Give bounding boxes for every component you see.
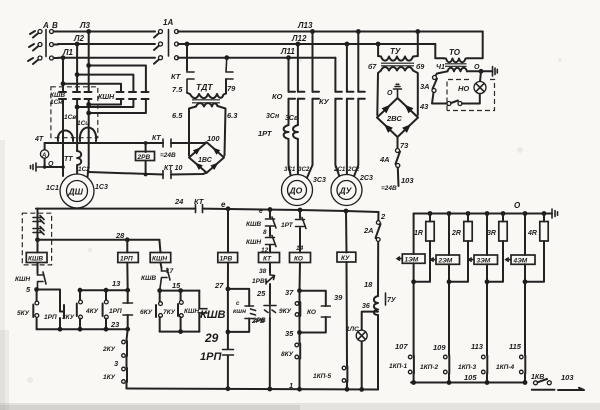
rectifier 2ВС bridge outline: [377, 98, 418, 137]
node loop B top: [75, 72, 80, 77]
node 27: [226, 287, 231, 292]
svg-text:1ЭМ: 1ЭМ: [405, 257, 419, 264]
contact 2РВ timed: [264, 306, 276, 319]
node 28: [125, 237, 130, 242]
svg-text:1Св: 1Св: [64, 114, 76, 121]
contact 1РП nc: [127, 290, 129, 329]
svg-text:2: 2: [380, 212, 386, 221]
wire КШН rung: [159, 240, 161, 268]
contact 1РВ timed: [266, 273, 275, 284]
coil КШН box: [150, 253, 171, 263]
wire Л13 corner to ТО: [468, 32, 483, 59]
fuse 4А: [396, 149, 401, 168]
wire 15 block top: [160, 290, 200, 292]
button 4КУ: [105, 290, 107, 300]
node 7КУ top: [178, 288, 183, 293]
svg-text:1РП: 1РП: [120, 256, 133, 263]
ground right bus: [552, 209, 558, 218]
wire ТДТ secondary right drop: [218, 106, 226, 156]
wire 1РВ rung: [227, 209, 229, 289]
motor ДУ outer circle: [331, 175, 362, 206]
svg-text:7КУ: 7КУ: [163, 309, 176, 316]
node loop B return: [75, 105, 80, 110]
svg-text:ДО: ДО: [289, 186, 303, 196]
diode 2ВС top-right: [405, 105, 414, 114]
motor ДО inner circle: [288, 181, 307, 200]
svg-text:ДШ: ДШ: [68, 187, 84, 197]
svg-text:103: 103: [401, 176, 414, 185]
rung2 right wire + resistor 2R: [449, 214, 468, 282]
contact КО aux ticks: [321, 306, 330, 317]
wire КТ rung: [269, 210, 271, 390]
wire top line 13: [80, 289, 128, 291]
underline 1КВ: [532, 389, 555, 391]
node Л12-ДО tap: [296, 42, 301, 47]
svg-text:39: 39: [334, 293, 343, 302]
svg-text:103: 103: [561, 373, 574, 382]
contact КШН aux block: [198, 291, 200, 332]
transformer ТДТ primary winding: [187, 93, 226, 98]
wire 1РП rung: [126, 240, 128, 290]
svg-text:е: е: [221, 200, 226, 209]
wire О to ground: [481, 70, 493, 72]
node Л12-ТДТ tap: [185, 42, 190, 47]
node Л3 tap: [86, 29, 91, 34]
wire ДО phase 1: [289, 58, 292, 177]
bottom bus middle: [127, 389, 379, 390]
coil КО box: [290, 253, 311, 263]
contact КО pole3: [313, 92, 320, 99]
svg-text:4КУ: 4КУ: [85, 308, 99, 315]
motor ДО outer circle: [282, 175, 313, 206]
rung3 right wire + resistor 3R: [487, 214, 503, 282]
wire line2 Л12 right: [178, 43, 435, 45]
svg-text:О: О: [48, 161, 54, 168]
lamp НО: [474, 82, 486, 94]
svg-text:4R: 4R: [527, 230, 537, 237]
wire ДО phase 3: [306, 32, 313, 181]
winding 7У: [374, 296, 378, 315]
node Л12-ТУ tap: [376, 42, 381, 47]
svg-text:1РП: 1РП: [109, 308, 122, 315]
node Л12-ДУ tap: [345, 42, 350, 47]
contact cross 1: [33, 216, 44, 224]
node bottom x362: [359, 387, 364, 392]
wire 29 down: [227, 289, 229, 389]
control bus left: [36, 208, 196, 210]
contact КШВ pole3: [85, 92, 92, 99]
svg-text:2ЭМ: 2ЭМ: [438, 258, 453, 265]
bottom bus nodes: [411, 380, 416, 385]
svg-text:А: А: [41, 153, 46, 159]
svg-text:1РВ: 1РВ: [220, 256, 233, 263]
contact КУ pole2: [347, 92, 354, 99]
svg-text:3С3: 3С3: [313, 177, 326, 184]
control bus right: [203, 209, 379, 212]
transformer ТУ core: [381, 63, 414, 66]
wire ТУ secondary right to bridge: [413, 71, 418, 116]
svg-text:27: 27: [214, 281, 224, 290]
svg-text:КО: КО: [294, 256, 303, 263]
svg-text:3Св: 3Св: [285, 115, 299, 122]
contact КШН nc x: [266, 236, 277, 247]
motor ДШ outer circle: [60, 174, 94, 208]
contact 1КП-1: [408, 355, 412, 359]
svg-text:2С3: 2С3: [359, 175, 373, 182]
svg-text:2С1: 2С1: [333, 166, 346, 173]
svg-text:4ЭМ: 4ЭМ: [513, 258, 528, 265]
svg-text:Л13: Л13: [297, 21, 313, 30]
svg-text:38: 38: [259, 268, 267, 275]
node 4КУ top: [104, 288, 109, 293]
svg-text:113: 113: [471, 342, 484, 351]
wire loop arc right: [80, 128, 96, 142]
svg-text:1С3: 1С3: [95, 184, 108, 191]
wire ТУ primary left drop: [377, 44, 379, 56]
svg-text:КТ: КТ: [263, 256, 272, 263]
svg-text:О: О: [514, 201, 521, 210]
svg-text:1КУ: 1КУ: [103, 374, 116, 381]
node loop C return: [86, 102, 91, 107]
node ammeter: [43, 165, 47, 169]
wire ТУ primary right drop: [417, 32, 419, 57]
svg-text:КШН: КШН: [15, 276, 30, 283]
svg-text:КУ: КУ: [341, 255, 350, 262]
rung1 left wire: [413, 214, 415, 383]
rung1 right wire + resistor 1R: [414, 214, 430, 282]
svg-text:109: 109: [433, 343, 446, 352]
svg-text:КШВ: КШВ: [50, 92, 65, 99]
ground 2ВС top: [394, 84, 402, 98]
wire line1 Л3 left: [58, 31, 155, 33]
svg-text:1РВ: 1РВ: [252, 278, 265, 285]
wire phase drop x89 to motor ДШ: [88, 32, 89, 178]
wire lamp branch: [362, 312, 378, 390]
svg-text:107: 107: [395, 342, 408, 351]
right bottom bus: [411, 382, 525, 384]
ground left: [31, 163, 45, 171]
wire loop C КШН: [63, 84, 121, 105]
svg-text:2А: 2А: [363, 226, 374, 235]
wire field line upper: [45, 142, 207, 145]
node rung2 join: [447, 279, 452, 284]
contact КШВ pole2: [73, 92, 80, 99]
wire 27-29 rect loop: [228, 289, 249, 332]
node Л1 tap: [61, 55, 66, 60]
switch 1А pole 2: [154, 42, 179, 50]
svg-text:Л3: Л3: [79, 21, 90, 30]
svg-text:Л12: Л12: [291, 34, 307, 43]
transformer ТУ secondary winding: [381, 67, 413, 70]
svg-text:1КВ: 1КВ: [531, 374, 544, 381]
switch АВ pole 3: [33, 56, 58, 64]
svg-text:3R: 3R: [487, 230, 496, 237]
transformer ТДТ secondary winding: [196, 103, 218, 106]
coil 2ЭМ box: [436, 255, 460, 264]
contact 1РТ nc: [296, 218, 307, 229]
svg-text:4Т: 4Т: [34, 136, 44, 143]
wire field line lower: [89, 172, 207, 175]
wire ДУ phase 3: [353, 32, 358, 180]
fuse 2А: [376, 221, 381, 242]
rung2 left wire: [448, 214, 450, 383]
switch 1А pole 1: [154, 30, 179, 38]
wire bottom line 23: [37, 328, 128, 330]
wire ТДТ primary left drop: [186, 44, 188, 70]
svg-text:1R: 1R: [414, 230, 423, 237]
node 3КУ top: [78, 288, 83, 293]
node bottom x270: [267, 387, 272, 392]
svg-text:КО: КО: [307, 309, 316, 316]
wire ДУ phase 1: [335, 58, 340, 178]
svg-text:3КУ: 3КУ: [62, 314, 75, 321]
wire loop B КШН: [77, 75, 133, 107]
svg-text:13: 13: [112, 279, 121, 288]
node loop C top: [61, 81, 66, 86]
svg-text:=24В: =24В: [160, 152, 176, 159]
diode 1ВС bottom-left: [195, 163, 203, 171]
svg-text:Л2: Л2: [73, 34, 84, 43]
svg-text:35: 35: [285, 329, 294, 338]
coil КТ box: [259, 253, 280, 263]
svg-text:2РВ: 2РВ: [137, 154, 151, 161]
motor ДШ inner circle: [67, 181, 88, 202]
dashed box НО: [447, 80, 495, 111]
node О: [479, 69, 484, 74]
wire 2РВ branch: [145, 143, 147, 175]
button 1КУ: [122, 367, 126, 371]
node bus x346: [344, 209, 349, 214]
contact кшн loop ticks: [245, 306, 256, 319]
svg-text:1Сц: 1Сц: [77, 120, 90, 127]
svg-text:КШН: КШН: [98, 94, 115, 101]
rung4 left wire: [524, 214, 526, 383]
wire =24В stub: [397, 168, 400, 187]
ground right: [493, 67, 498, 77]
contact КТ field lower: [163, 171, 171, 179]
node 15: [157, 288, 162, 293]
input lead phase 2: [29, 44, 34, 47]
rung3 left wire: [486, 214, 488, 383]
svg-text:ДУ: ДУ: [339, 186, 353, 196]
svg-text:КШН: КШН: [184, 308, 199, 315]
ammeter А: [40, 150, 48, 158]
node Л2 tap: [75, 42, 80, 47]
node rung3 join: [485, 279, 490, 284]
svg-text:КО: КО: [272, 92, 283, 101]
motor ДУ inner circle: [337, 181, 356, 200]
svg-text:24: 24: [174, 197, 184, 206]
switch 1КВ: [534, 379, 552, 385]
svg-text:1ВС: 1ВС: [198, 157, 213, 164]
node Л13-ДО tap: [310, 29, 315, 34]
coil 1РП box: [118, 253, 139, 263]
contact 1КП-2: [444, 355, 448, 359]
node Л13-ТУ tap: [415, 29, 420, 34]
node bottom x300: [297, 387, 302, 392]
svg-text:=24В: =24В: [381, 185, 397, 192]
button 3КУ: [79, 290, 81, 300]
svg-text:2С2: 2С2: [347, 166, 360, 173]
wire line1 Л13 right: [178, 31, 483, 33]
node е: [226, 206, 231, 211]
node 2РВ bottom: [144, 173, 148, 177]
svg-text:КТ: КТ: [171, 72, 182, 81]
svg-text:кшн: кшн: [233, 308, 246, 315]
diode 2ВС bottom-left: [384, 124, 393, 133]
node rung1 join: [411, 279, 416, 284]
wire ДО phase 2: [297, 44, 299, 175]
svg-text:25: 25: [256, 289, 266, 298]
lamp 1ЛС: [356, 330, 367, 341]
wire 2А rung: [377, 212, 380, 390]
wire КШВ rung top: [37, 209, 39, 240]
contact КШН pole A: [142, 92, 149, 99]
contact 1КП-4: [520, 355, 524, 359]
svg-text:КШВ: КШВ: [141, 275, 156, 282]
switch НО circuit: [447, 101, 462, 106]
switch 1А pole 3: [154, 56, 179, 64]
node Л11-ТДТ tap: [224, 55, 229, 60]
diode 1ВС top-right: [212, 147, 220, 155]
svg-text:1КП-4: 1КП-4: [496, 364, 514, 371]
switch 1А mech link: [168, 30, 170, 57]
svg-text:О: О: [387, 90, 393, 97]
svg-text:6КУ: 6КУ: [140, 309, 153, 316]
contact КШН pole B: [129, 92, 136, 99]
svg-text:1РП: 1РП: [200, 351, 222, 363]
svg-text:9КУ: 9КУ: [279, 308, 292, 315]
svg-text:ТУ: ТУ: [390, 47, 401, 56]
transformer ТО secondary winding: [448, 68, 468, 71]
svg-text:1РТ: 1РТ: [258, 129, 273, 138]
svg-text:КТ 10: КТ 10: [164, 165, 183, 172]
dashed box КШВ: [51, 87, 98, 138]
diode 2ВС top-left: [382, 105, 391, 114]
wire 15 block bottom: [160, 331, 200, 333]
svg-text:1Сн: 1Сн: [50, 99, 62, 106]
svg-text:1С1: 1С1: [46, 185, 59, 192]
svg-text:КУ: КУ: [319, 97, 330, 106]
transformer ТО primary winding: [444, 58, 469, 62]
button 5КУ: [36, 290, 38, 302]
contact КТ primary left: [187, 70, 194, 93]
contact КШВ pole1: [59, 92, 66, 99]
bracket 7У: [385, 293, 387, 305]
node 37: [297, 288, 302, 293]
transformer ТО core: [445, 64, 467, 67]
switch АВ pole 1: [33, 30, 58, 38]
svg-text:8КУ: 8КУ: [281, 351, 294, 358]
svg-text:8: 8: [263, 229, 267, 236]
svg-text:В: В: [52, 21, 58, 30]
wire ammeter branch: [45, 143, 63, 167]
right top bus: [414, 213, 552, 215]
svg-text:36: 36: [362, 303, 370, 310]
dashed box КШВ rung: [22, 213, 51, 265]
svg-text:100: 100: [207, 134, 220, 143]
contact КТ field upper: [163, 139, 171, 147]
relay coil 2РВ box: [136, 152, 155, 161]
transformer ТТ loops: [77, 151, 81, 165]
wire ТДТ secondary left drop: [189, 107, 196, 156]
contact КУ pole1: [335, 92, 342, 99]
rung4 right wire + resistor 4R: [525, 214, 544, 282]
node5 jog wire 1РП: [37, 290, 64, 330]
svg-text:3А: 3А: [420, 82, 430, 91]
svg-text:6.3: 6.3: [227, 111, 238, 120]
coil 3ЭМ box: [474, 255, 498, 264]
node motor left lead: [61, 165, 65, 169]
node bottom x228: [226, 386, 231, 391]
contact КТ on bus: [196, 205, 203, 213]
wire КО rung: [299, 210, 302, 389]
svg-text:КШВ: КШВ: [28, 256, 43, 263]
svg-text:1КП-5: 1КП-5: [313, 373, 331, 380]
svg-text:КШВ: КШВ: [200, 309, 226, 321]
switch mech link: [45, 30, 47, 57]
svg-text:Ч1: Ч1: [436, 64, 445, 71]
node 5: [34, 287, 39, 292]
svg-text:КШВ: КШВ: [246, 221, 261, 228]
svg-text:7У: 7У: [387, 297, 397, 304]
svg-text:1: 1: [289, 381, 293, 390]
contact КТ primary right: [226, 58, 233, 79]
svg-text:Л11: Л11: [280, 47, 295, 56]
node loop A return: [86, 111, 91, 116]
contact КШН nc: [38, 272, 47, 289]
contact КО pole2: [298, 92, 305, 99]
svg-text:ТО: ТО: [449, 48, 461, 57]
svg-text:КТ: КТ: [152, 135, 161, 142]
scan smudge bottom: [0, 403, 600, 410]
svg-text:ТДТ: ТДТ: [196, 82, 213, 92]
svg-text:7.5: 7.5: [172, 85, 183, 94]
button 2КУ: [127, 329, 128, 340]
svg-text:3ЭМ: 3ЭМ: [477, 258, 491, 265]
button 8КУ: [295, 343, 299, 347]
svg-text:3Сн: 3Сн: [266, 113, 280, 120]
svg-text:28: 28: [115, 231, 125, 240]
bus nodes: [428, 211, 433, 216]
wire 28 line: [38, 239, 160, 241]
svg-text:1РТ: 1РТ: [281, 222, 294, 229]
transformer ТДТ core: [192, 100, 220, 103]
svg-text:4А: 4А: [379, 155, 390, 164]
wire line3 Л1 left: [58, 57, 155, 59]
coil 1ЭМ box: [402, 254, 425, 263]
svg-text:2ВС: 2ВС: [386, 114, 402, 123]
node bus x270: [268, 207, 273, 212]
svg-text:КТ: КТ: [194, 197, 205, 206]
coil 4ЭМ box: [511, 255, 535, 264]
scan smudge left: [0, 140, 5, 410]
input lead phase 1: [30, 31, 35, 34]
wire phase drop x63 to motor ДШ: [62, 58, 64, 176]
svg-text:2РВ: 2РВ: [252, 317, 266, 324]
svg-text:3С1: 3С1: [284, 166, 296, 173]
svg-text:1РП: 1РП: [44, 314, 57, 321]
svg-text:КШН: КШН: [152, 256, 167, 263]
node 2РВ top: [144, 141, 148, 145]
transformer ТУ primary winding: [378, 56, 418, 61]
wire loop A КШН: [89, 66, 146, 114]
wire fuse to switch: [432, 93, 447, 104]
node 35: [297, 330, 302, 335]
svg-text:37: 37: [285, 288, 294, 297]
svg-text:73: 73: [400, 141, 409, 150]
svg-text:23: 23: [110, 320, 120, 329]
